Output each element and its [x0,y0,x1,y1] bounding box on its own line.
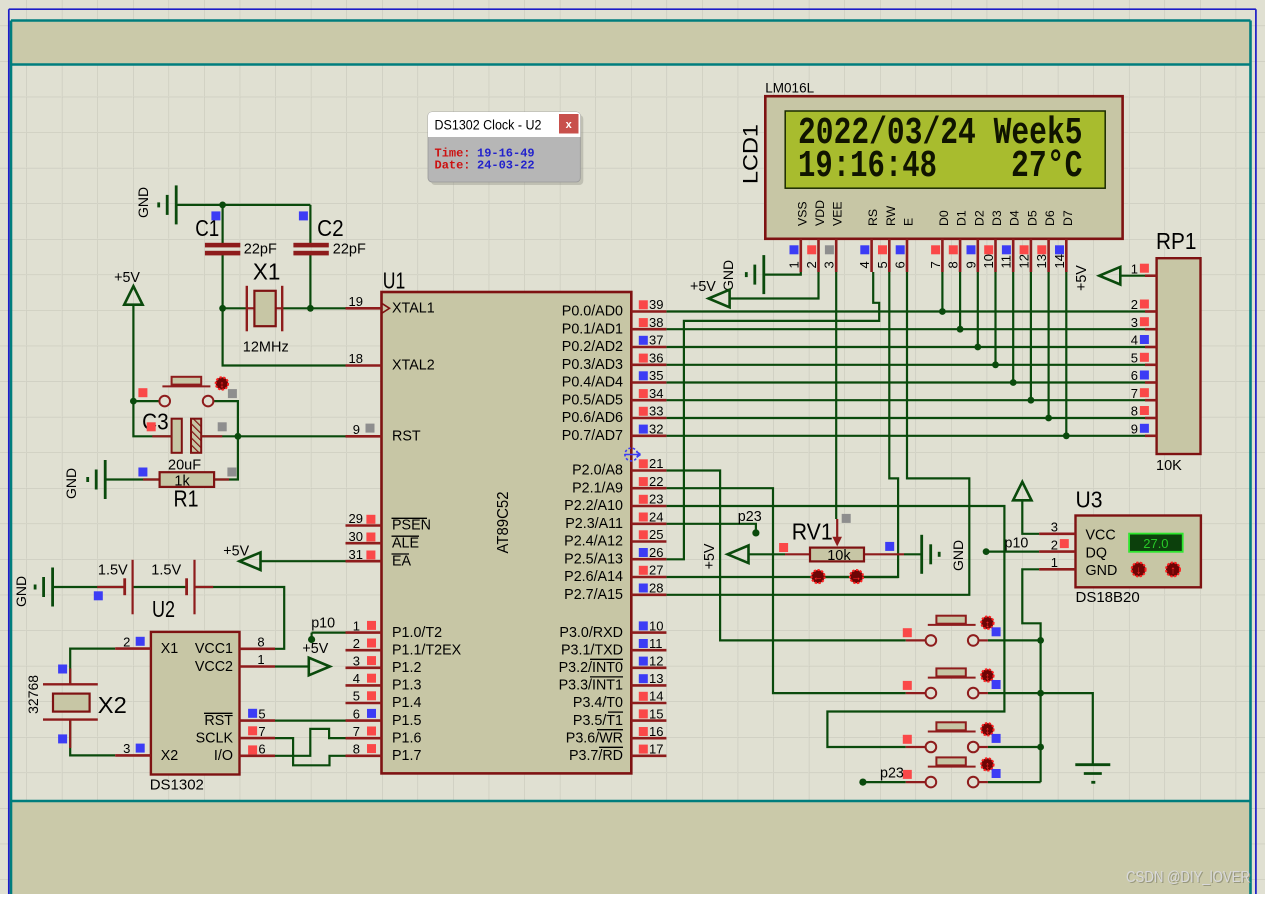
svg-text:32: 32 [649,421,663,436]
junction gnd btn2 [1037,690,1044,697]
svg-text:X2: X2 [98,692,127,718]
ground symbol (battery) [51,568,54,607]
svg-text:X1: X1 [161,641,179,657]
svg-text:P1.2: P1.2 [392,660,421,676]
RP1 resistor pack body [1157,258,1201,454]
svg-text:3: 3 [822,261,837,268]
svg-text:P2.0/A8: P2.0/A8 [572,463,623,479]
U1 origin marker [625,448,641,461]
U1 pin 33 P0.6/AD6 [631,417,666,420]
P3 label overlines [590,658,623,660]
wire: RP1 pin1 +5V [1120,275,1145,277]
svg-text:P0.1/AD1: P0.1/AD1 [562,321,623,337]
svg-text:ALE: ALE [392,535,419,551]
svg-text:x: x [566,119,573,131]
svg-text:P0.5/AD5: P0.5/AD5 [562,392,623,408]
wire: X2 crystal to U2 [70,649,115,685]
crystal X2 32768 [43,683,98,685]
svg-text:VCC2: VCC2 [195,659,233,675]
wire: U3 VCC to +5V [1022,500,1039,534]
U2 pin I/O [240,754,276,757]
svg-text:7: 7 [353,724,360,739]
wire: LCD VDD to +5V [730,272,819,299]
wire: U2 SCLK to P1.7 (crossover) [275,738,346,765]
wire: LCD D1 down to P0.1 row [959,272,961,329]
svg-text:DS1302: DS1302 [150,777,204,794]
wire: P0.1 bus row U1 pin 38 to RP1 pin 3 [666,328,1145,330]
wire: RV1 left to +5V [749,553,786,555]
svg-text:28: 28 [649,581,663,596]
wire: P0.6 bus row U1 pin 33 to RP1 pin 8 [666,417,1145,419]
battery cell 1 1.5V [97,586,125,588]
svg-text:P3.2/INT0: P3.2/INT0 [559,660,623,676]
svg-text:+5V: +5V [302,641,328,657]
net label dot p23 (U1 side) [752,529,759,536]
U1 pin 23 P2.2/A10 [631,505,666,508]
svg-text:E: E [902,218,916,226]
svg-text:2: 2 [123,634,130,649]
svg-text:RV1: RV1 [792,519,833,545]
svg-text:38: 38 [649,315,663,330]
svg-text:P2.1/A9: P2.1/A9 [572,480,623,496]
svg-text:I/O: I/O [214,748,233,764]
svg-text:P0.0/AD0: P0.0/AD0 [562,304,623,320]
svg-text:16: 16 [649,724,663,739]
svg-text:DS1302 Clock - U2: DS1302 Clock - U2 [435,118,542,133]
U1 pin 2 P1.1/T2EX [346,649,382,652]
svg-text:P0.4/AD4: P0.4/AD4 [562,375,623,391]
battery cell 2 1.5V [185,578,188,595]
U1 pin 25 P2.4/A12 [631,540,666,543]
svg-text:VSS: VSS [795,201,809,226]
wire: P2.0 to button1 [666,471,905,641]
svg-text:P0.2/AD2: P0.2/AD2 [562,339,623,355]
RP1 pin 9 [1145,434,1157,437]
svg-text:6: 6 [258,742,265,757]
svg-text:LCD1: LCD1 [739,124,762,184]
RP1 pin 7 [1145,399,1157,402]
svg-text:+5V: +5V [223,543,249,559]
svg-text:2: 2 [804,261,819,268]
U1 pin 24 P2.3/A11 [631,522,666,525]
junction D0 on P0.0 [939,308,946,315]
junction C1 top [219,202,226,209]
svg-text:GND: GND [720,260,736,291]
svg-text:P1.0/T2: P1.0/T2 [392,625,442,641]
svg-text:p23: p23 [880,766,904,782]
svg-text:VCC1: VCC1 [195,641,233,657]
svg-text:5: 5 [875,261,890,268]
RP1 pin 8 [1145,417,1157,420]
svg-text:p10: p10 [311,616,335,632]
svg-text:19:16:48: 19:16:48 [798,145,937,188]
svg-text:31: 31 [349,547,363,562]
U1 pin 17 P3.7/RD [631,754,666,757]
svg-text:D4: D4 [1008,210,1022,226]
wire: p10 label stub at P1.0 [312,631,346,633]
RP1 pin 3 [1145,328,1157,331]
net label dot p10 (U2 side) [308,636,315,643]
wire: U2 RST to P1.5 [275,719,346,721]
svg-text:P2.6/A14: P2.6/A14 [564,569,623,585]
U1 XTAL1 pin with clock symbol [346,307,382,310]
svg-text:18: 18 [349,351,363,366]
wire: LCD D3 down to P0.3 row [994,272,996,365]
wire: P0.4 bus row U1 pin 35 to RP1 pin 6 [666,381,1145,383]
svg-text:U3: U3 [1076,486,1103,512]
svg-text:P3.7/RD: P3.7/RD [569,748,623,764]
svg-text:P2.7/A15: P2.7/A15 [564,587,623,603]
wire: P0.2 bus row U1 pin 37 to RP1 pin 4 [666,346,1145,348]
svg-text:5: 5 [1131,350,1138,365]
svg-text:3: 3 [1051,520,1058,535]
U2 pin X2 [115,754,151,757]
wire: p23 stub at button4 [863,781,906,783]
ground symbol (R1) [104,460,107,499]
wire: LCD D4 down to P0.4 row [1012,272,1014,383]
svg-text:D0: D0 [937,210,951,226]
svg-text:35: 35 [649,368,663,383]
U1 pin 21 P2.0/A8 [631,469,666,472]
wire: reset button right to RST rail [213,401,238,436]
svg-text:D3: D3 [990,210,1004,226]
U1 XTAL2 pin [346,364,382,367]
svg-text:D7: D7 [1061,210,1075,226]
svg-text:P0.6/AD6: P0.6/AD6 [562,410,623,426]
U1 pin 38 P0.1/AD1 [631,328,666,331]
junction D5 on P0.5 [1028,397,1035,404]
svg-text:3: 3 [123,741,130,756]
U1 pin 32 P0.7/AD7 [631,434,666,437]
U2 pin VCC2 [240,665,276,668]
svg-text:D1: D1 [955,210,969,226]
svg-text:VDD: VDD [813,200,827,226]
svg-text:4: 4 [857,261,872,268]
svg-text:21: 21 [649,456,663,471]
U1 pin 22 P2.1/A9 [631,487,666,490]
svg-text:7: 7 [258,724,265,739]
svg-text:15: 15 [649,706,663,721]
svg-text:11: 11 [649,636,663,651]
svg-text:p10: p10 [1005,535,1029,551]
U1 pin 1 P1.0/T2 [346,631,382,634]
U2 pin X1 [115,647,151,650]
U3 DS18B20 body [1076,516,1201,588]
svg-text:1.5V: 1.5V [151,563,181,579]
svg-text:14: 14 [649,689,663,704]
wire: U3 GND down to buttons [1022,569,1040,782]
svg-text:6: 6 [893,261,908,268]
svg-text:D2: D2 [972,210,986,226]
svg-text:GND: GND [13,576,29,607]
svg-text:20uF: 20uF [168,458,201,474]
U1 pin 39 P0.0/AD0 [631,310,666,313]
svg-text:U1: U1 [383,267,406,293]
svg-text:32768: 32768 [25,675,41,714]
pushbutton 3 [906,746,926,748]
wire: +5V to reset button [133,305,159,401]
reset pushbutton [159,396,170,407]
svg-text:DS18B20: DS18B20 [1076,589,1140,606]
svg-text:37: 37 [649,333,663,348]
wire: LCD D2 down to P0.2 row [977,272,979,347]
crystal X1 [246,286,248,332]
svg-text:13: 13 [649,671,663,686]
svg-text:↕: ↕ [985,619,990,630]
svg-text:↕: ↕ [985,725,990,736]
svg-text:29: 29 [349,511,363,526]
svg-text:RST: RST [204,713,233,729]
junction gnd btn3 [1037,744,1044,751]
wire: U2 VCC2 to +5V arrow [275,665,309,667]
wire: ground net to earth [1041,693,1093,765]
junction XTAL1 C1 [219,305,226,312]
junction XTAL1 C2 [307,305,314,312]
svg-text:XTAL1: XTAL1 [392,301,435,317]
svg-text:P3.5/T1: P3.5/T1 [573,713,623,729]
svg-text:P1.7: P1.7 [392,748,421,764]
capacitor C2 [293,243,328,248]
svg-text:U2: U2 [152,596,175,622]
svg-text:GND: GND [135,187,151,218]
svg-text:22pF: 22pF [333,242,366,258]
wire: RV1 right to GND [904,553,922,555]
wire: P2.3 with p23 stub [666,524,756,530]
+5V arrow (U3) [1013,482,1031,501]
RV1 adjust buttons [811,570,824,583]
U1 pin 13 P3.3/INT1 [631,684,666,687]
svg-text:12MHz: 12MHz [243,340,289,356]
U1 pin 12 P3.2/INT0 [631,666,666,669]
junction gnd btn1 [1037,637,1044,644]
svg-text:8: 8 [1131,404,1138,419]
svg-text:7: 7 [1131,386,1138,401]
wire: button 1 right terminal to ground net [988,639,1041,641]
wire: LCD E to P2.7 [666,272,969,595]
svg-text:23: 23 [649,492,663,507]
svg-text:P1.4: P1.4 [392,695,421,711]
U1 pin 3 P1.2 [346,666,382,669]
U1 pin 35 P0.4/AD4 [631,381,666,384]
svg-text:P1.1/T2EX: P1.1/T2EX [392,642,462,658]
junction RST rail [235,433,242,440]
RP1 pin 2 [1145,310,1157,313]
U1 pin 4 P1.3 [346,684,382,687]
U1 pin 36 P0.3/AD3 [631,363,666,366]
LCD screen [785,111,1105,188]
capacitor C1 [205,243,240,248]
svg-text:36: 36 [649,350,663,365]
svg-text:P3.0/RXD: P3.0/RXD [559,625,623,641]
wire: EA +5V [261,560,346,562]
svg-text:VCC: VCC [1086,528,1116,544]
RP1 pin 4 [1145,346,1157,349]
svg-text:+5V: +5V [1074,265,1090,291]
svg-text:12: 12 [649,654,663,669]
svg-text:DQ: DQ [1086,545,1107,561]
U1 PSEN pin [346,524,382,527]
pushbutton 1 [906,639,926,641]
U1 pin 16 P3.6/WR [631,737,666,740]
svg-text:27°C: 27°C [1011,145,1083,188]
svg-text:4: 4 [353,671,360,686]
wire: LCD RS to P2.5 [666,272,879,559]
svg-text:P3.4/T0: P3.4/T0 [573,695,623,711]
svg-text:10k: 10k [827,548,851,564]
svg-text:R1: R1 [174,485,199,511]
svg-text:13: 13 [1034,254,1049,268]
wire: P2.2 to button3 [666,506,1004,747]
svg-text:↕: ↕ [219,380,224,391]
junction D4 on P0.4 [1010,379,1017,386]
svg-text:1.5V: 1.5V [98,563,128,579]
svg-text:+5V: +5V [702,543,718,569]
svg-text:P3.1/TXD: P3.1/TXD [561,642,623,658]
junction D1 on P0.1 [957,326,964,333]
svg-text:12: 12 [1016,254,1031,268]
svg-text:→: → [851,571,862,583]
svg-text:6: 6 [353,706,360,721]
svg-text:P1.6: P1.6 [392,730,421,746]
svg-text:RS: RS [866,209,880,226]
U2 pin RST [240,719,276,722]
U1 pin 11 P3.1/TXD [631,649,666,652]
svg-text:↓: ↓ [1136,565,1142,577]
svg-text:1: 1 [1131,261,1138,276]
RP1 pin 5 [1145,363,1157,366]
svg-text:X1: X1 [253,259,281,285]
svg-text:P0.3/AD3: P0.3/AD3 [562,357,623,373]
svg-text:p23: p23 [738,509,762,525]
svg-text:GND: GND [1086,563,1118,579]
wire: crystal net XTAL1 [176,204,310,206]
svg-text:2: 2 [353,636,360,651]
svg-text:↕: ↕ [985,761,990,772]
svg-text:X2: X2 [161,748,179,764]
svg-text:RP1: RP1 [1156,228,1197,254]
U1 pin 15 P3.5/T1 [631,719,666,722]
junction D2 on P0.2 [974,344,981,351]
svg-text:5: 5 [353,689,360,704]
svg-text:25: 25 [649,527,663,542]
svg-text:P1.3: P1.3 [392,678,421,694]
U3 pin 2 DQ [1039,550,1075,553]
svg-text:3: 3 [1131,315,1138,330]
U1 pin 6 P1.5 [346,719,382,722]
wire: RST rail [133,401,171,436]
svg-text:14: 14 [1052,254,1067,268]
ground symbol (RV1) [920,535,923,574]
U1 pin 34 P0.5/AD5 [631,399,666,402]
U3 pin 1 GND [1039,568,1075,571]
svg-text:RW: RW [884,205,898,226]
svg-text:1: 1 [1051,555,1058,570]
U1 pin 26 P2.5/A13 [631,558,666,561]
capacitor C3 electrolytic [172,419,182,453]
wire: U2 I/O to P1.6 (crossover) [275,729,346,756]
top header band [12,21,1251,64]
wire: LCD D5 down to P0.5 row [1030,272,1032,400]
svg-text:P2.3/A11: P2.3/A11 [565,516,623,532]
U2 pin SCLK [240,737,276,740]
svg-text:10K: 10K [1156,458,1182,474]
svg-text:2: 2 [1131,297,1138,312]
svg-text:3: 3 [353,654,360,669]
svg-text:10: 10 [649,618,663,633]
wire: button 4 right terminal to ground net [988,781,1041,783]
wire: P0.7 bus row U1 pin 32 to RP1 pin 9 [666,435,1145,437]
svg-text:PSEN: PSEN [392,518,431,534]
svg-text:22pF: 22pF [244,242,277,258]
svg-text:VEE: VEE [831,201,845,226]
U1 pin 14 P3.4/T0 [631,702,666,705]
U1 pin 37 P0.2/AD2 [631,346,666,349]
RP1 pin 1 [1145,274,1157,277]
junction p10 net [983,548,990,555]
wire: R1 to GND and rail [105,478,159,480]
junction D7 on P0.7 [1063,432,1070,439]
svg-text:4: 4 [1131,333,1138,348]
svg-text:LM016L: LM016L [765,81,814,96]
ground symbol (LCD VSS) [762,255,765,294]
svg-text:GND: GND [63,468,79,499]
wire: LCD VSS to GND [764,272,801,275]
svg-text:30: 30 [349,529,363,544]
DS1302 clock popup window [428,112,583,185]
svg-text:D6: D6 [1043,210,1057,226]
wire: LCD D6 down to P0.6 row [1047,272,1049,418]
wire: P0.0 bus row U1 pin 39 to RP1 pin 2 [666,310,1145,312]
resistor R1 [143,478,160,480]
svg-text:7: 7 [928,261,943,268]
svg-text:GND: GND [950,540,966,571]
wire: LCD RW to P2.6 [666,272,898,577]
svg-text:22: 22 [649,474,663,489]
svg-text:P0.7/AD7: P0.7/AD7 [562,428,623,444]
svg-text:11: 11 [999,255,1014,269]
net label dot p23 (button4) [859,779,866,786]
U3 display 27.0 [1129,534,1183,552]
svg-text:C2: C2 [317,215,344,241]
bottom band [12,802,1251,895]
wire: P2.1 to button2 [666,488,905,693]
svg-text:SCLK: SCLK [196,731,234,747]
svg-text:24-03-22: 24-03-22 [477,159,535,173]
svg-text:9: 9 [963,261,978,268]
svg-text:↕: ↕ [985,672,990,683]
U2 DS1302 body [151,632,240,775]
svg-text:←: ← [813,571,824,583]
svg-text:+5V: +5V [114,270,140,286]
wire: button 3 right terminal to ground net [988,746,1041,748]
RV1 wiper arrow [836,519,838,543]
RP1 pin 6 [1145,381,1157,384]
svg-text:9: 9 [1131,421,1138,436]
svg-text:AT89C52: AT89C52 [495,491,512,553]
ground symbol (crystal net) [175,185,178,224]
U1 RST pin [346,435,382,438]
svg-text:P2.5/A13: P2.5/A13 [564,552,623,568]
svg-text:26: 26 [649,545,663,560]
U1 pin 10 P3.0/RXD [631,631,666,634]
svg-text:P2.2/A10: P2.2/A10 [564,498,623,514]
svg-text:XTAL2: XTAL2 [392,358,435,374]
junction D3 on P0.3 [992,361,999,368]
svg-text:1: 1 [786,261,801,268]
U3 pin 3 VCC [1039,532,1075,535]
svg-text:6: 6 [1131,368,1138,383]
svg-text:RST: RST [392,429,421,445]
